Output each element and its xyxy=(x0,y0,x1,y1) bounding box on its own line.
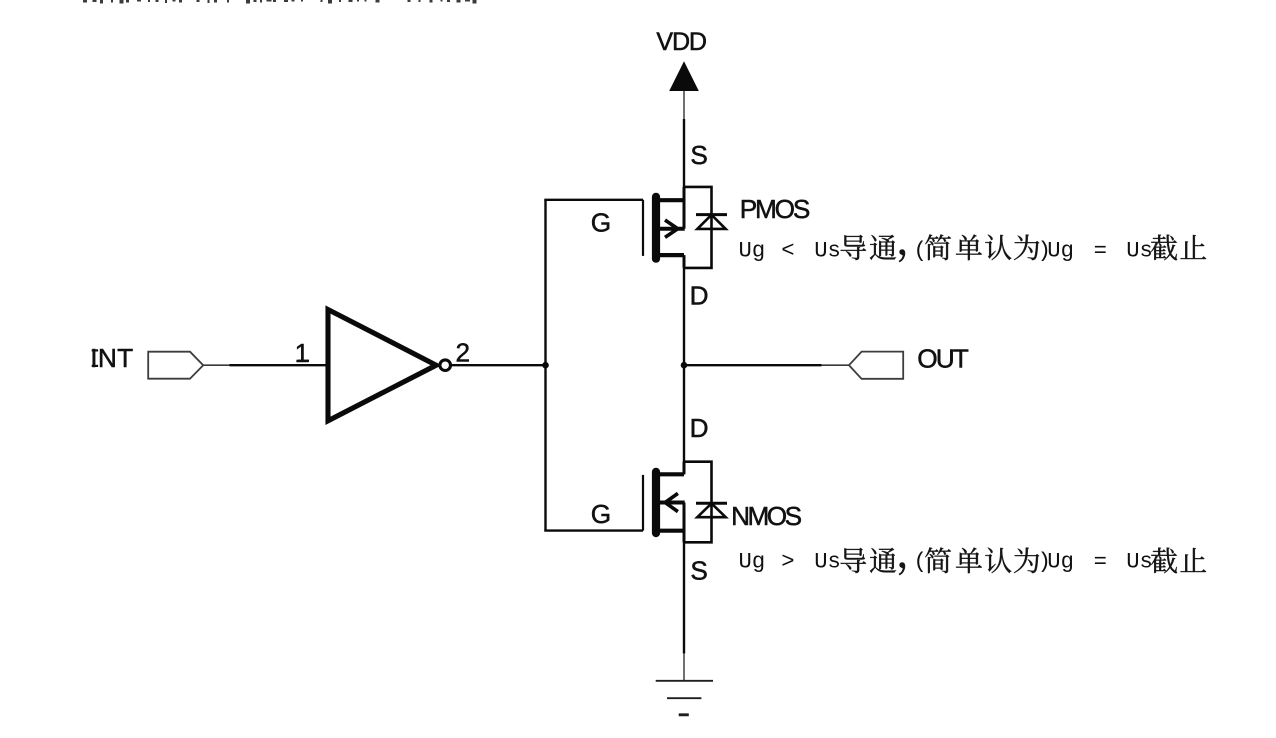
svg-text:Ug: Ug xyxy=(739,550,766,575)
wire PMOS drain to NMOS drain xyxy=(683,268,685,474)
connector OUT xyxy=(849,352,903,379)
svg-text:=: = xyxy=(1094,239,1107,264)
svg-text:Us: Us xyxy=(1126,239,1153,264)
ground xyxy=(656,653,713,715)
body diode of Q2 xyxy=(684,462,727,543)
power flag VDD xyxy=(669,61,699,120)
svg-text:PMOS: PMOS xyxy=(740,194,811,224)
wire to NMOS gate xyxy=(544,529,643,531)
svg-text:(: ( xyxy=(914,550,927,575)
junction at bracket xyxy=(542,362,549,369)
wire gate bracket vertical xyxy=(544,200,546,531)
svg-text:Us: Us xyxy=(1126,550,1153,575)
svg-text:Us: Us xyxy=(814,550,841,575)
svg-text:D: D xyxy=(690,280,709,310)
svg-text:Ug: Ug xyxy=(1047,550,1074,575)
wire output to OUT connector xyxy=(684,364,822,366)
svg-text:=: = xyxy=(1094,550,1107,575)
wire inverter output to gate bracket xyxy=(451,364,546,366)
svg-text:G: G xyxy=(591,499,611,529)
wire INT to inverter input xyxy=(203,364,229,366)
svg-text:Us: Us xyxy=(814,239,841,264)
label INT xyxy=(92,349,98,351)
svg-text:Ug: Ug xyxy=(1047,239,1074,264)
svg-text:OUT: OUT xyxy=(917,343,969,373)
annotation line for NMOS xyxy=(739,547,1207,575)
wire NMOS source to ground xyxy=(683,531,685,654)
svg-text:NMOS: NMOS xyxy=(731,501,802,531)
wire to PMOS gate xyxy=(544,199,643,201)
transistor Q1 PMOS xyxy=(643,187,685,268)
svg-text:(: ( xyxy=(914,239,927,264)
pin number 1 xyxy=(295,338,310,368)
svg-text:INT: INT xyxy=(90,343,133,373)
svg-text:Ug: Ug xyxy=(739,239,766,264)
svg-text:D: D xyxy=(690,413,709,443)
body diode of Q1 xyxy=(684,187,727,268)
connector INT xyxy=(148,352,203,379)
wire VDD to PMOS source xyxy=(683,119,685,200)
transistor Q2 NMOS xyxy=(643,462,685,543)
inverter U1 triangle xyxy=(328,310,436,421)
svg-text:G: G xyxy=(591,208,611,238)
svg-text:2: 2 xyxy=(456,337,471,367)
svg-text:>: > xyxy=(781,550,794,575)
svg-text:VDD: VDD xyxy=(656,28,707,56)
junction at output node xyxy=(681,362,688,369)
svg-text:S: S xyxy=(690,555,707,585)
annotation line for PMOS xyxy=(739,234,1207,263)
svg-text:S: S xyxy=(690,140,707,170)
svg-text:<: < xyxy=(781,239,794,264)
svg-text:1: 1 xyxy=(295,338,310,368)
inverter U1 output bubble xyxy=(440,360,451,371)
partially cut-off text line at top xyxy=(83,0,477,4)
